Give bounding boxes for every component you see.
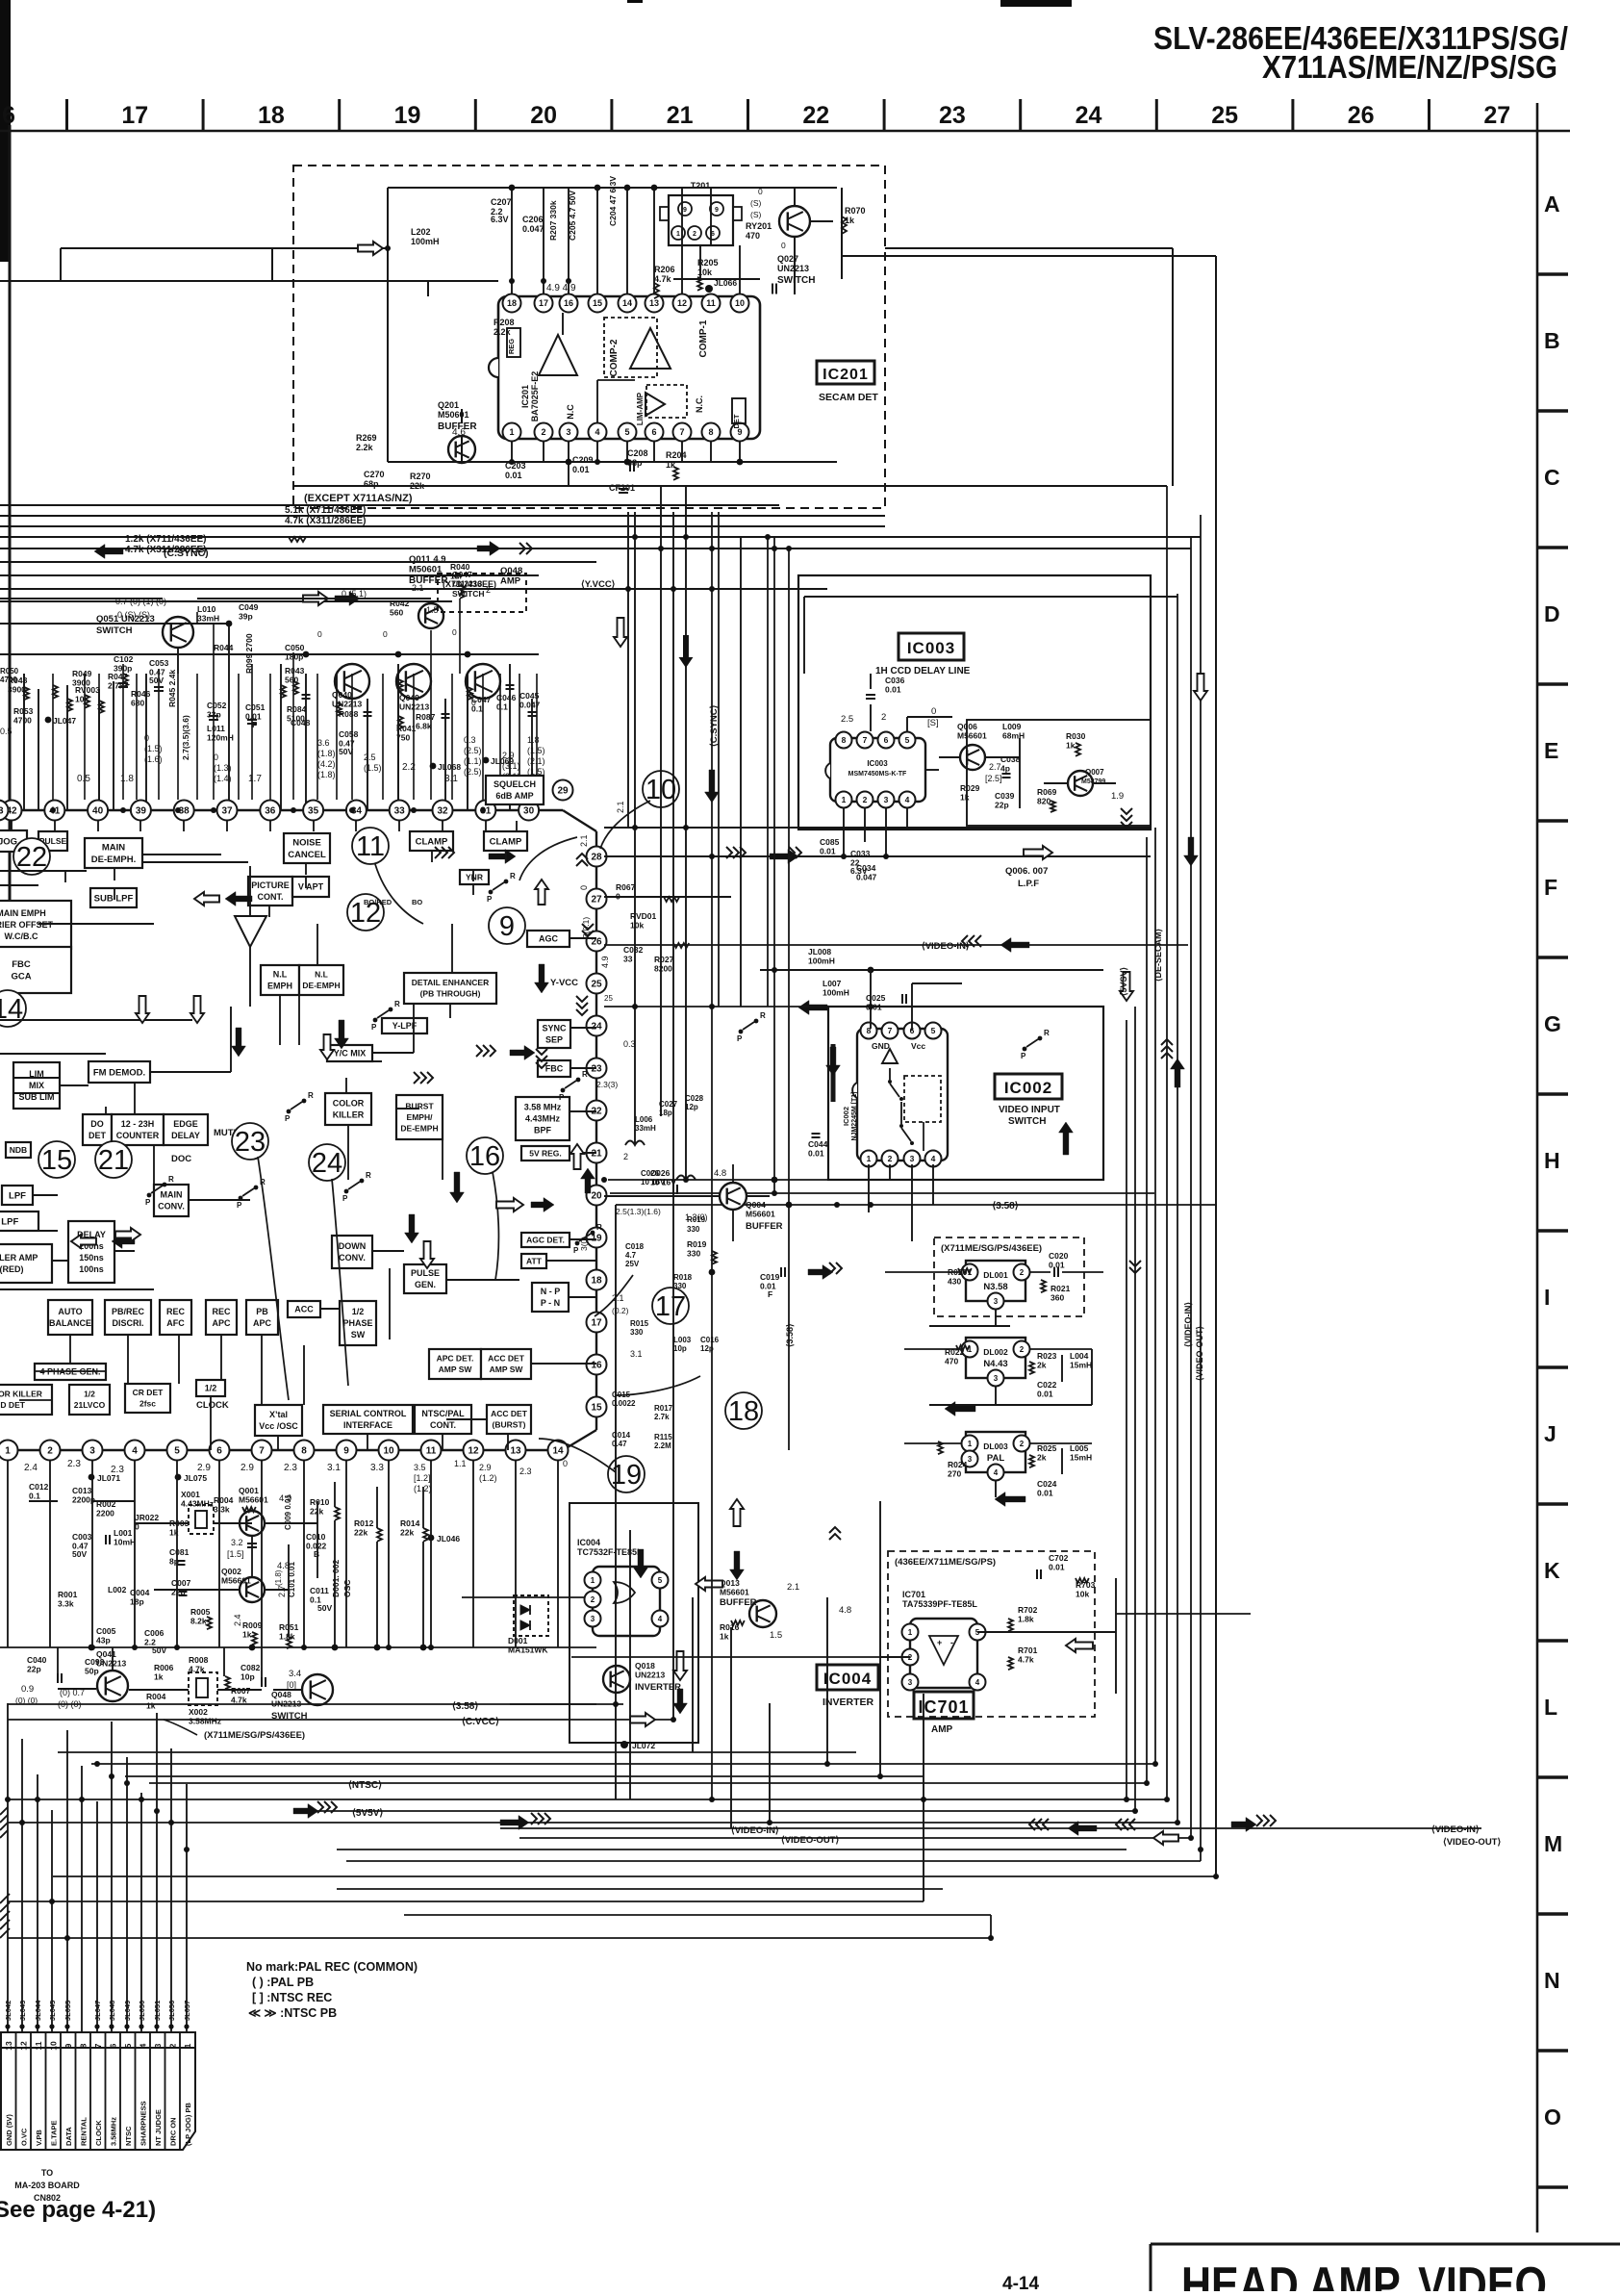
svg-text:R070: R070 [845,206,866,216]
svg-text:3: 3 [910,1154,915,1163]
svg-text:L202: L202 [411,227,431,237]
svg-text:JL008: JL008 [808,947,831,957]
svg-text:⟨3.58⟩: ⟨3.58⟩ [992,1201,1018,1212]
svg-text:4.43MHz: 4.43MHz [181,1499,214,1509]
svg-text:GCA: GCA [11,972,31,982]
svg-text:6dB AMP: 6dB AMP [495,791,533,801]
svg-text:R023: R023 [1037,1351,1057,1361]
svg-text:L005: L005 [1070,1443,1089,1453]
svg-text:0.01: 0.01 [1049,1563,1065,1572]
svg-text:9: 9 [715,207,719,214]
svg-text:JR022: JR022 [135,1513,159,1522]
svg-text:C058: C058 [339,729,359,739]
svg-text:1: 1 [842,795,847,804]
svg-text:NT JUDGE: NT JUDGE [154,2109,163,2146]
svg-text:R269: R269 [356,433,377,443]
svg-text:⟨VIDEO-OUT⟩: ⟨VIDEO-OUT⟩ [781,1835,839,1846]
svg-text:SWITCH: SWITCH [452,589,485,599]
svg-text:270: 270 [948,1469,961,1479]
svg-text:JL057: JL057 [183,2001,191,2021]
svg-text:2.2k: 2.2k [356,443,374,452]
svg-text:0.01: 0.01 [1049,1261,1065,1270]
svg-text:PB/REC: PB/REC [112,1307,145,1316]
svg-text:R115: R115 [654,1433,672,1441]
svg-text:R043: R043 [285,666,305,676]
svg-text:0: 0 [563,1459,568,1468]
svg-text:C026: C026 [641,1169,660,1178]
svg-text:⟨Y.VCC⟩: ⟨Y.VCC⟩ [581,579,616,590]
svg-text:22: 22 [802,102,829,129]
svg-text:17: 17 [591,1318,602,1329]
svg-text:DE-EMPH.: DE-EMPH. [91,855,136,865]
svg-text:18: 18 [507,298,517,308]
svg-text:X’tal: X’tal [269,1410,288,1419]
svg-text:R004: R004 [146,1692,166,1701]
svg-text:9: 9 [683,207,687,214]
svg-text:JL047: JL047 [53,716,76,726]
svg-text:[1.2]: [1.2] [414,1473,431,1483]
svg-text:C032: C032 [623,945,644,955]
svg-text:⟨3.58⟩: ⟨3.58⟩ [452,1701,478,1712]
svg-text:DL003: DL003 [983,1441,1008,1451]
svg-text:68p: 68p [364,479,379,489]
svg-text:⟨VIDEO-IN⟩: ⟨VIDEO-IN⟩ [1431,1824,1480,1835]
svg-text:COLOR: COLOR [333,1099,365,1109]
svg-text:0 (S) (S): 0 (S) (S) [117,610,150,620]
svg-text:0.047: 0.047 [522,224,544,234]
svg-text:⟨5VSV⟩: ⟨5VSV⟩ [1119,967,1128,996]
svg-text:1: 1 [183,2043,192,2048]
svg-text:C005: C005 [96,1626,116,1636]
svg-text:L001: L001 [114,1528,133,1538]
svg-text:R001: R001 [58,1590,78,1599]
svg-text:IC002: IC002 [1004,1079,1052,1097]
svg-text:Q201: Q201 [438,400,459,410]
svg-text:50V: 50V [149,676,164,685]
svg-text:SQUELCH: SQUELCH [494,779,536,789]
svg-text:15mH: 15mH [1070,1361,1092,1370]
svg-text:8: 8 [842,735,847,745]
svg-text:100ns: 100ns [79,1264,104,1274]
svg-text:2: 2 [888,1154,893,1163]
svg-text:JL055: JL055 [63,2001,72,2021]
svg-text:SWITCH: SWITCH [96,625,133,636]
svg-text:1k: 1k [1066,741,1076,751]
svg-text:L003: L003 [673,1336,692,1344]
svg-text:(0) 0.7: (0) 0.7 [60,1688,85,1697]
svg-text:BO/RED: BO/RED [364,898,392,906]
svg-text:10 16V: 10 16V [641,1178,666,1186]
svg-text:L010: L010 [197,604,216,614]
svg-text:C004: C004 [130,1588,150,1597]
svg-text:2.9: 2.9 [197,1463,211,1473]
svg-text:C: C [1544,465,1560,490]
svg-text:0.01: 0.01 [808,1149,824,1159]
svg-text:2.3(3): 2.3(3) [596,1080,618,1089]
svg-text:[S]: [S] [927,718,939,728]
svg-text:15: 15 [591,1403,602,1414]
svg-text:C028: C028 [685,1094,704,1103]
svg-text:R: R [366,1171,371,1180]
svg-text:R044: R044 [214,643,234,652]
svg-text:KILLER: KILLER [333,1110,365,1120]
svg-text:15mH: 15mH [1070,1453,1092,1463]
svg-text:INVERTER: INVERTER [823,1696,874,1708]
svg-text:3: 3 [908,1678,913,1687]
svg-text:4: 4 [138,2043,147,2048]
svg-text:1.9: 1.9 [1111,791,1124,802]
svg-text:N.C.: N.C. [695,395,704,413]
svg-text:W.C/B.C: W.C/B.C [5,931,38,941]
svg-text:10k: 10k [1076,1590,1089,1599]
svg-text:MAIN: MAIN [102,843,125,854]
svg-text:3.58MHz: 3.58MHz [189,1717,221,1726]
svg-text:DE-EMPH: DE-EMPH [400,1123,438,1133]
svg-text:⟨VIDEO-OUT⟩: ⟨VIDEO-OUT⟩ [1195,1326,1204,1381]
svg-text:MAIN EMPH: MAIN EMPH [0,908,46,918]
svg-text:Q048: Q048 [271,1690,291,1699]
svg-text:JL043: JL043 [18,2001,27,2021]
svg-text:100mH: 100mH [823,988,849,998]
svg-text:3: 3 [591,1615,595,1623]
svg-text:R015: R015 [630,1319,649,1328]
svg-text:K: K [1544,1558,1560,1583]
svg-text:REC: REC [212,1307,231,1316]
svg-text:DELAY: DELAY [171,1131,200,1140]
svg-text:RV003: RV003 [75,685,100,695]
svg-text:50V: 50V [317,1603,332,1613]
svg-text:CANCEL: CANCEL [288,850,326,860]
svg-text:3: 3 [968,1455,973,1464]
svg-text:X711AS/ME/NZ/PS/SG: X711AS/ME/NZ/PS/SG [1262,49,1557,85]
svg-text:AFC: AFC [166,1318,185,1328]
svg-text:C082: C082 [240,1663,261,1672]
svg-text:C010: C010 [306,1532,326,1542]
svg-text:10: 10 [48,2041,58,2051]
svg-text:3: 3 [994,1374,999,1383]
svg-text:1/2: 1/2 [84,1390,95,1399]
svg-text:4.6: 4.6 [452,427,466,438]
svg-text:IC004: IC004 [823,1670,872,1688]
svg-text:7: 7 [679,427,684,437]
svg-text:JL050: JL050 [138,2001,146,2021]
svg-text:15: 15 [41,1145,72,1176]
svg-text:(1.1): (1.1) [464,756,482,766]
svg-text:R025: R025 [1037,1443,1057,1453]
svg-text:C206: C206 [522,215,544,224]
svg-text:4.9 4.9: 4.9 4.9 [546,283,576,293]
svg-text:APC: APC [212,1318,231,1328]
svg-text:2.2M: 2.2M [654,1441,671,1450]
svg-text:HEAD AMP, VIDEO: HEAD AMP, VIDEO [1181,2258,1547,2291]
svg-text:C051: C051 [245,702,266,712]
svg-text:(1.8): (1.8) [317,749,336,758]
svg-text:4: 4 [975,1678,980,1687]
svg-text:P: P [342,1194,348,1203]
svg-text:Q006. 007: Q006. 007 [1005,866,1048,877]
svg-text:C013: C013 [72,1486,92,1495]
svg-text:JL048: JL048 [108,2001,116,2021]
svg-text:0.47: 0.47 [612,1440,627,1448]
svg-text:3.5: 3.5 [414,1463,426,1472]
svg-text:N3.58: N3.58 [983,1282,1007,1292]
svg-text:FBC: FBC [12,959,31,970]
svg-text:15: 15 [593,298,602,308]
svg-text:C040: C040 [27,1655,47,1665]
svg-text:22k: 22k [400,1528,414,1538]
svg-text:4.7k: 4.7k [1018,1655,1034,1665]
svg-text:G: G [1544,1011,1561,1036]
svg-text:IC701: IC701 [918,1697,969,1717]
svg-text:JL047: JL047 [93,2001,102,2021]
svg-text:0.01: 0.01 [1037,1390,1053,1399]
svg-text:C702: C702 [1049,1553,1069,1563]
svg-text:1k: 1k [242,1630,252,1640]
svg-text:50V: 50V [72,1549,87,1559]
svg-text:R027: R027 [654,955,674,964]
svg-text:Y-VCC: Y-VCC [550,978,578,988]
svg-text:DOC: DOC [171,1154,191,1164]
svg-text:(PB THROUGH): (PB THROUGH) [420,989,481,999]
svg-text:R: R [510,872,516,880]
svg-text:0.3: 0.3 [464,735,476,745]
svg-text:R: R [308,1091,314,1100]
svg-text:M56601: M56601 [957,731,987,741]
svg-text:N - P: N - P [541,1287,561,1296]
svg-text:C025: C025 [866,993,886,1003]
svg-text:2: 2 [1020,1345,1025,1354]
svg-text:17: 17 [539,298,548,308]
svg-text:25: 25 [604,994,613,1003]
svg-text:18: 18 [258,102,285,129]
svg-text:4: 4 [132,1446,138,1457]
svg-text:LPF: LPF [9,1190,26,1201]
svg-text:Q011 4.9: Q011 4.9 [409,554,446,565]
svg-text:28: 28 [591,853,602,863]
svg-text:V.PB: V.PB [35,2130,43,2146]
svg-text:(4.2): (4.2) [317,759,336,769]
svg-text:3.2: 3.2 [231,1538,243,1547]
svg-text:3: 3 [884,795,889,804]
svg-text:16: 16 [469,1141,500,1172]
svg-text:CONT.: CONT. [258,892,284,902]
svg-text:AGC: AGC [539,934,559,944]
svg-text:L: L [1544,1695,1557,1720]
svg-text:R206: R206 [654,265,675,274]
svg-text:4.7k (X311/286EE): 4.7k (X311/286EE) [125,545,207,555]
svg-text:9: 9 [499,911,515,942]
svg-text:F: F [768,1289,772,1299]
svg-text:2200: 2200 [96,1509,114,1518]
svg-text:4.9: 4.9 [600,956,610,968]
svg-text:10mH: 10mH [114,1538,136,1547]
svg-text:1: 1 [968,1440,973,1448]
svg-text:10p: 10p [673,1344,687,1353]
svg-text:C015: C015 [612,1390,631,1399]
svg-text:0.5: 0.5 [0,727,13,736]
svg-text:⟨NTSC⟩: ⟨NTSC⟩ [348,1780,382,1791]
svg-text:100mH: 100mH [808,957,835,966]
svg-text:R021: R021 [1050,1284,1071,1293]
svg-text:R040: R040 [450,562,470,572]
svg-text:68mH: 68mH [1002,731,1025,741]
svg-text:(LP JOG) PB: (LP JOG) PB [184,2103,192,2146]
svg-text:H: H [1544,1148,1560,1173]
svg-text:DATA: DATA [64,2127,73,2146]
svg-text:2.3: 2.3 [111,1465,124,1475]
svg-text:36: 36 [265,806,276,817]
svg-text:JOG: JOG [0,836,17,847]
svg-text:JL056: JL056 [167,2001,176,2021]
svg-text:10k: 10k [630,921,644,931]
svg-text:R006: R006 [154,1663,174,1672]
svg-text:FM DEMOD.: FM DEMOD. [93,1067,145,1078]
svg-text:0.9: 0.9 [21,1684,34,1695]
svg-text:0.01: 0.01 [885,685,901,695]
svg-text:11: 11 [706,298,716,308]
svg-text:(EXCEPT X711AS/NZ): (EXCEPT X711AS/NZ) [304,493,413,504]
svg-text:(S): (S) [750,210,762,219]
svg-text:Q004: Q004 [746,1200,766,1210]
svg-text:2fsc: 2fsc [139,1399,156,1409]
svg-text:Vcc: Vcc [911,1041,925,1051]
svg-text:20: 20 [591,1191,602,1202]
svg-text:3.1: 3.1 [327,1463,341,1473]
svg-text:L.P.F: L.P.F [1018,879,1039,889]
svg-text:330: 330 [687,1225,700,1234]
svg-text:NJM2245M [T1]: NJM2245M [T1] [851,1092,858,1141]
svg-text:2k: 2k [1037,1361,1047,1370]
svg-text:R: R [596,1223,602,1232]
svg-text:23: 23 [939,102,966,129]
svg-text:KILLER AMP: KILLER AMP [0,1253,38,1263]
svg-text:2.7(3.5)(3.6): 2.7(3.5)(3.6) [181,715,190,760]
svg-text:330: 330 [673,1282,687,1290]
svg-text:12: 12 [468,1446,479,1457]
svg-text:(436EE/X711ME/SG/PS): (436EE/X711ME/SG/PS) [895,1557,996,1568]
svg-text:L011: L011 [207,724,225,733]
svg-text:NDB: NDB [10,1145,27,1155]
svg-text:2.3: 2.3 [67,1459,81,1469]
svg-text:2.1: 2.1 [787,1582,799,1593]
svg-text:8: 8 [78,2043,88,2048]
svg-text:5: 5 [905,735,910,745]
svg-text:17: 17 [121,102,148,129]
svg-text:1k: 1k [960,793,970,803]
svg-text:1/2: 1/2 [352,1307,365,1316]
svg-text:2.2k: 2.2k [494,327,512,337]
svg-text:RRIER OFFSET: RRIER OFFSET [0,920,53,930]
svg-text:2.7: 2.7 [277,1585,287,1597]
svg-text:330: 330 [687,1249,700,1259]
svg-text:E.TAPE: E.TAPE [49,2120,58,2146]
svg-text:C207: C207 [491,197,512,207]
svg-text:COMP-2: COMP-2 [609,339,620,376]
svg-text:Q041: Q041 [96,1649,116,1659]
svg-text:4: 4 [905,795,910,804]
svg-text:4.7k: 4.7k [654,274,672,284]
svg-text:8: 8 [301,1446,307,1457]
svg-text:I: I [1544,1285,1550,1310]
svg-text:1: 1 [908,1628,913,1637]
svg-text:BA7025F-E2: BA7025F-E2 [530,371,540,422]
svg-text:IC201: IC201 [823,367,869,383]
svg-text:2k: 2k [1037,1453,1047,1463]
svg-text:DE-EMPH: DE-EMPH [302,981,340,990]
svg-text:PULSE: PULSE [411,1268,440,1278]
svg-text:TA75339PF-TE85L: TA75339PF-TE85L [902,1599,977,1609]
svg-text:3.4: 3.4 [289,1669,301,1679]
svg-text:2.5: 2.5 [364,753,376,762]
svg-text:SECAM DET: SECAM DET [819,392,878,403]
svg-text:M56601: M56601 [746,1210,775,1219]
svg-text:EDGE: EDGE [173,1119,198,1129]
svg-text:2.9: 2.9 [502,751,515,760]
svg-text:APC: APC [253,1318,272,1328]
svg-text:P: P [145,1198,151,1207]
svg-text:R207 330k: R207 330k [548,200,558,241]
svg-text:2.7k: 2.7k [654,1413,670,1421]
svg-text:3: 3 [89,1446,95,1457]
svg-text:22p: 22p [27,1665,41,1674]
svg-text:560: 560 [390,608,403,618]
svg-text:SWITCH: SWITCH [777,275,815,286]
svg-text:ACC: ACC [294,1305,314,1314]
svg-text:C081: C081 [169,1547,190,1557]
svg-text:L004: L004 [1070,1351,1089,1361]
svg-text:Q002: Q002 [221,1567,241,1576]
svg-text:MSM7450MS-K-TF: MSM7450MS-K-TF [848,771,907,778]
svg-text:2: 2 [1020,1268,1025,1277]
svg-text:14: 14 [552,1446,564,1457]
svg-text:C204 47 6.3V: C204 47 6.3V [608,176,618,226]
svg-text:ACC DET: ACC DET [488,1354,525,1364]
svg-text:C209: C209 [572,455,594,465]
svg-text:IC003: IC003 [907,639,955,657]
svg-text:RENTAL: RENTAL [79,2117,88,2146]
svg-text:D001. 002: D001. 002 [331,1560,341,1597]
svg-text:AMP: AMP [500,576,521,587]
svg-text:7: 7 [863,735,868,745]
svg-text:JL075: JL075 [184,1473,207,1483]
svg-text:COUNTER: COUNTER [116,1131,160,1140]
svg-text:2.9: 2.9 [479,1463,492,1472]
svg-text:R024: R024 [948,1460,968,1469]
svg-text:4700: 4700 [13,716,32,726]
svg-text:DISCRI.: DISCRI. [112,1318,143,1328]
svg-text:3.1: 3.1 [630,1349,643,1359]
svg-text:2.5(1.3)(1.6): 2.5(1.3)(1.6) [616,1207,661,1216]
svg-text:BUFFER: BUFFER [720,1597,757,1608]
svg-text:MAIN: MAIN [161,1190,183,1200]
svg-text:4p: 4p [1000,764,1010,774]
svg-text:2: 2 [881,712,886,723]
svg-text:1/2: 1/2 [205,1384,217,1393]
svg-text:SYNC: SYNC [542,1024,567,1033]
svg-text:0: 0 [383,629,388,639]
svg-text:R004: R004 [214,1495,234,1505]
svg-text:2.4: 2.4 [24,1463,38,1473]
svg-text:No mark:PAL REC (COMMON): No mark:PAL REC (COMMON) [246,1960,418,1974]
svg-text:0.01: 0.01 [1037,1489,1053,1498]
svg-text:37: 37 [221,806,233,817]
svg-text:Q007: Q007 [1085,768,1104,777]
svg-text:Y/C MIX: Y/C MIX [334,1049,367,1059]
svg-text:(2.5): (2.5) [464,746,482,755]
svg-text:C012: C012 [29,1482,49,1492]
svg-text:35: 35 [308,806,319,817]
svg-text:R046: R046 [131,689,151,699]
